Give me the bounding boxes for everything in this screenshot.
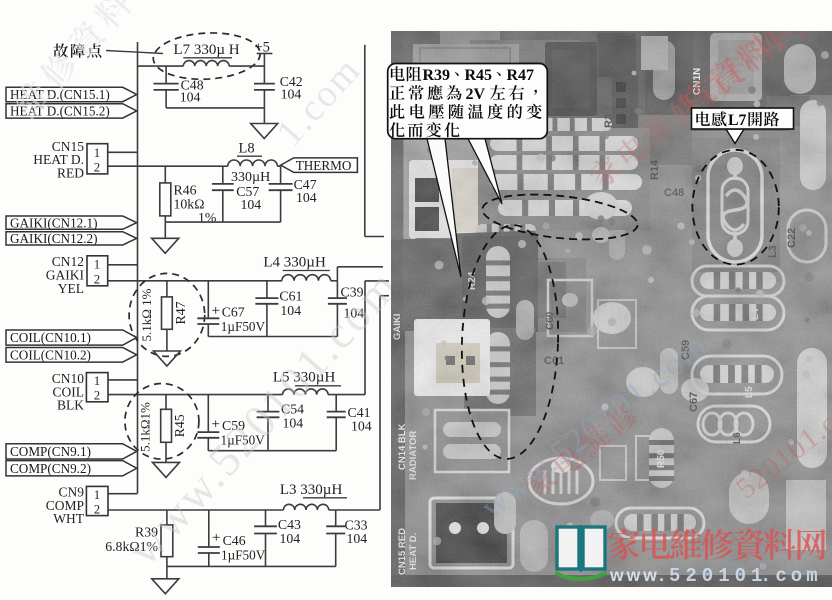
resistor R39 [161,510,173,579]
label C48 104 [180,78,204,105]
svg-text:R47: R47 [507,67,535,84]
svg-text:YEL: YEL [58,281,84,296]
power +5 terminal [255,40,273,67]
capacitor C42 [254,66,275,123]
svg-text:L7 330µ H: L7 330µ H [174,42,240,58]
label R46 10k 1% [174,183,217,226]
capacitor C39 [328,281,347,337]
inductor L3 [283,504,328,510]
svg-text:L4 330µH: L4 330µH [263,255,326,271]
fault highlight circle around R47 [129,273,205,356]
svg-text:2V: 2V [466,86,486,103]
logo text 家电维修资料网 [608,529,825,560]
svg-text:R46: R46 [174,183,197,198]
net flag THERMO [281,158,358,173]
resistor R45 [161,395,172,463]
net flag GAIKI(CN12.1) [6,215,137,230]
wire CN9 pin1 to bus [108,493,138,495]
net flag GAIKI(CN12.2) [6,231,137,246]
svg-text:1: 1 [94,258,100,272]
svg-text:104: 104 [347,531,368,546]
fault-point leader line [106,51,163,54]
svg-text:L3 330µH: L3 330µH [280,482,343,498]
capacitor C47 [269,166,293,222]
inductor L5 [283,389,329,395]
connector CN15 HEAT D. RED [33,139,107,181]
photo dashed ellipse around resistors R39 R45 R47 [480,188,640,246]
net flag COIL(CN10.1) [6,330,137,345]
wire CN15 pin2 row [108,165,223,167]
label +C67 1uF50V [212,303,266,334]
wire +5V row [138,65,265,67]
wire L5 filter bottom rail [208,450,336,452]
svg-text:L8: L8 [239,141,255,157]
PCB photo [391,7,832,587]
annotation callout wedge 1 [427,139,461,277]
label L7 330uH [174,42,240,58]
fault highlight ellipse around L7 [152,30,261,82]
photo dashed ellipse large around resistor column [458,223,562,460]
label C42 104 [280,74,303,102]
ground below R47 [153,351,180,366]
svg-text:COIL(CN10.2): COIL(CN10.2) [10,347,91,362]
wire CN10 pin2 row (L5 filter) [108,394,365,396]
fault-point label 故障点 [53,43,101,58]
svg-text:C67: C67 [222,305,245,320]
capacitor C46 electrolytic [198,510,220,566]
label R47 5.1k 1% [139,288,188,341]
svg-text:2: 2 [94,389,100,403]
net flag COMP(CN9.2) [6,461,137,476]
label R39 6.8k 1% [105,525,158,555]
wire CN12 pin2 row (L4 filter) [108,280,338,282]
label L5 330uH [273,370,341,386]
svg-text:C61: C61 [279,289,302,304]
svg-text:104: 104 [296,190,317,205]
svg-text:104: 104 [241,197,262,212]
capacitor C48 [154,66,179,108]
svg-text:2: 2 [94,273,100,287]
svg-text:C43: C43 [278,517,301,532]
label C41 104 [348,405,372,434]
svg-text:1µF50V: 1µF50V [221,319,266,334]
label C57 104 [236,184,261,212]
inductor L7 [183,61,229,67]
net flag HEAT D.(CN15.2) [6,104,137,119]
capacitor C43 [254,510,277,566]
wire main ground bus [137,42,139,494]
capacitor C33 [326,510,345,566]
fault highlight circle around R45 [125,384,199,460]
svg-text:+: + [212,530,220,546]
capacitor C57 [212,166,234,222]
svg-text:104: 104 [180,90,201,105]
wire L3 output to PCB [380,296,389,510]
svg-text:2: 2 [94,503,100,517]
svg-text:GAIKI(CN12.2): GAIKI(CN12.2) [10,231,98,246]
ground below R39 [152,579,179,594]
svg-text:THERMO: THERMO [296,158,352,173]
svg-text:R45: R45 [172,414,187,437]
watermark faint .com upper schematic [268,49,369,154]
capacitor C54 [257,395,280,451]
annotation callout wedge 2 [468,139,502,204]
watermark faint hanzi top-left [9,0,134,121]
svg-text:RED: RED [57,166,84,181]
svg-text:104: 104 [280,303,301,318]
svg-text:+: + [212,303,220,319]
svg-text:.com: .com [760,565,822,587]
wire L8 filter bottom rail [165,221,280,223]
logo book icon [556,525,606,579]
label L3 330uH [280,482,347,498]
capacitor C41 [327,395,346,451]
svg-text:COMP(CN9.2): COMP(CN9.2) [10,461,91,476]
svg-text:5.1kΩ 1%: 5.1kΩ 1% [139,288,154,341]
svg-text:www.: www. [609,565,667,585]
label box 电感L7开路 [692,108,794,144]
wire CN12 pin1 to bus [108,264,138,266]
capacitor C67 electrolytic [197,281,219,337]
svg-text:1: 1 [94,488,100,502]
wire CN10 pin1 to bus [108,379,138,381]
svg-text:2: 2 [94,161,100,175]
svg-text:104: 104 [351,419,372,434]
wire L4 filter bottom rail [208,336,337,338]
svg-text:330µH: 330µH [231,170,270,185]
wire L4 output to PCB [337,267,383,281]
inductor L4 [282,275,331,281]
label R45 5.1k 1% [138,402,188,452]
label C47 104 [294,177,317,205]
wire L5 output to PCB [365,281,389,395]
label C39 104 [341,285,365,321]
svg-text:R39: R39 [423,67,451,84]
svg-text:R47: R47 [173,301,188,324]
svg-text:520101: 520101 [669,565,767,587]
svg-text:COMP(CN9.1): COMP(CN9.1) [10,444,91,459]
svg-text:R45: R45 [465,67,493,84]
wire THERMO net to PCB [365,45,384,237]
net flag HEAT D.(CN15.1) [6,87,137,102]
label +C59 1uF50V [212,417,266,448]
ground below C42 [251,124,278,139]
wire C48-C42 bottom rail [166,107,264,109]
photo dashed ellipse around inductor L7 [692,150,778,265]
net flag COIL(CN10.2) [6,347,137,362]
label C61 104 [279,289,302,319]
svg-text:5.1kΩ1%: 5.1kΩ1% [138,402,153,452]
connector CN10 COIL BLK [52,371,108,413]
label +C46 1uF50V [212,530,266,563]
svg-text:1: 1 [94,146,100,160]
logo url www.520101.com [609,565,822,587]
wire CN9 pin2 row (L3 filter) [108,509,380,511]
svg-text:C46: C46 [223,533,246,548]
resistor R46 [160,166,171,238]
watermark diagonal www.520101.com over schematic [118,259,409,575]
label L8 330uH [231,141,270,186]
wire L3 filter bottom rail [167,565,336,567]
net flag COMP(CN9.1) [6,444,137,459]
wire CN15 pin1 to bus [108,151,138,153]
ground below R45 [153,462,180,477]
svg-text:GAIKI(CN12.1): GAIKI(CN12.1) [10,215,98,230]
connector CN9 COMP WHT [46,485,108,527]
svg-text:1: 1 [94,374,100,388]
resistor R47 [162,281,173,351]
label C54 104 [281,402,304,431]
capacitor C59 electrolytic [197,395,219,451]
svg-text:L7: L7 [728,112,747,129]
svg-text:104: 104 [280,531,301,546]
label C43 104 [278,517,301,546]
annotation box about R39 R45 R47 voltage [388,64,548,139]
svg-text:COIL(CN10.1): COIL(CN10.1) [10,330,91,345]
svg-text:WHT: WHT [53,511,84,526]
ground below R46 [152,238,179,253]
connector CN12 GAIKI YEL [46,254,108,296]
label L4 330uH [263,255,330,271]
svg-text:1µF50V: 1µF50V [221,548,266,563]
inductor L8 [223,160,281,166]
svg-text:BLK: BLK [57,398,84,413]
capacitor C61 [255,281,278,337]
label C33 104 [345,518,368,547]
